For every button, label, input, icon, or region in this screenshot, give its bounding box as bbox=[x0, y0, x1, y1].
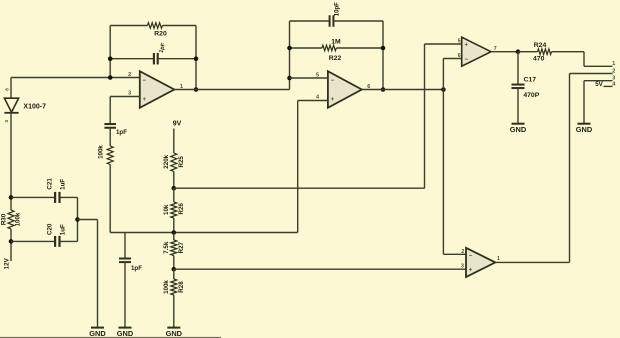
svg-text:R22: R22 bbox=[329, 55, 342, 62]
wire loop2 top with 10pF left bbox=[290, 20, 330, 22]
node C20 tap bbox=[9, 239, 14, 244]
capacitor 1pF lower bbox=[119, 258, 131, 260]
svg-text:+: + bbox=[143, 97, 147, 103]
wire connector pin1 bbox=[584, 65, 613, 67]
svg-text:6: 6 bbox=[458, 53, 461, 59]
wire comparator pin3 bbox=[174, 268, 466, 270]
svg-text:C20: C20 bbox=[46, 223, 53, 235]
node R25 R26 bbox=[172, 186, 177, 191]
resistor R24 bbox=[538, 49, 552, 55]
wire U1 pin3 drop bbox=[109, 97, 111, 124]
svg-text:3: 3 bbox=[128, 91, 131, 97]
ground GND pin3 bbox=[578, 123, 591, 125]
svg-text:R26: R26 bbox=[178, 203, 185, 215]
svg-text:+: + bbox=[469, 268, 473, 274]
node pin5 branch bbox=[287, 76, 292, 81]
resistor R28 100k bbox=[171, 279, 177, 295]
svg-text:2: 2 bbox=[128, 72, 131, 78]
wire U2 pin4 bbox=[298, 100, 328, 102]
photodiode X100-7 bbox=[4, 98, 18, 112]
node C21 tap bbox=[9, 195, 14, 200]
svg-text:220k: 220k bbox=[163, 154, 170, 168]
node 1M left bbox=[287, 46, 292, 51]
wire R26 node to pin4 drop bbox=[174, 232, 298, 234]
node loop2 right at U2 output bbox=[381, 87, 386, 92]
capacitor C21 bbox=[54, 192, 56, 203]
wire R24 right bbox=[552, 51, 585, 53]
svg-text:1M: 1M bbox=[331, 38, 341, 45]
capacitor 10pF bbox=[329, 15, 331, 27]
svg-text:10pF: 10pF bbox=[335, 2, 341, 16]
op-amp U3 bbox=[462, 37, 491, 66]
wire pin3 to gnd bbox=[583, 81, 585, 124]
resistor R24 470 wire left bbox=[518, 51, 538, 53]
node U2 output to comparator bbox=[441, 87, 446, 92]
svg-text:1: 1 bbox=[612, 61, 615, 67]
svg-text:2: 2 bbox=[461, 249, 464, 255]
wire U4 output bbox=[495, 261, 569, 263]
wire connector pin3 bbox=[584, 80, 613, 82]
photodiode top wire / op-amp U1 pin2 net bbox=[11, 77, 140, 79]
svg-text:−: − bbox=[469, 253, 473, 259]
op-amp U4 comparator bbox=[466, 248, 495, 277]
wire 1M left bbox=[290, 47, 323, 49]
svg-text:R20: R20 bbox=[154, 30, 167, 37]
svg-text:−: − bbox=[331, 78, 335, 84]
capacitor C21 wire left bbox=[11, 196, 55, 198]
capacitor C17 wire top bbox=[517, 52, 519, 85]
ground GND left bbox=[91, 327, 104, 329]
wire U3 pin5 bbox=[425, 43, 462, 45]
svg-text:2: 2 bbox=[612, 68, 615, 74]
svg-text:470P: 470P bbox=[523, 92, 539, 99]
feedback left vertical bbox=[109, 26, 111, 78]
wire R26 to node bbox=[173, 218, 175, 233]
resistor R30 bbox=[8, 210, 14, 229]
wire R27 to node bbox=[173, 256, 175, 270]
wire 1M right bbox=[336, 47, 383, 49]
wire U2 out vertical net bbox=[442, 59, 444, 255]
wire U2 output bbox=[362, 89, 444, 91]
photodiode X100-7 lead bbox=[10, 78, 12, 99]
capacitor 1pF feedback wire left bbox=[110, 58, 154, 60]
svg-text:1uF: 1uF bbox=[60, 224, 67, 235]
wire 1pF lower to gnd bbox=[124, 262, 126, 327]
wire U4 output riser to pin2 bbox=[569, 74, 571, 263]
resistor R22 1M bbox=[322, 45, 336, 51]
capacitor C20 wire left bbox=[11, 240, 55, 242]
svg-text:GND: GND bbox=[117, 329, 134, 338]
capacitor 1pF at pin3 bbox=[104, 123, 116, 125]
wire U2 pin4 drop bbox=[297, 101, 299, 233]
resistor R20 bbox=[148, 23, 163, 29]
wire photodiode to R30 node bbox=[10, 113, 12, 210]
wire loop2 left vertical bbox=[289, 21, 291, 90]
wire bottom rail to R26 node bbox=[110, 232, 174, 234]
svg-text:R30: R30 bbox=[1, 213, 8, 225]
svg-text:GND: GND bbox=[89, 329, 106, 338]
svg-text:1pF: 1pF bbox=[131, 265, 142, 272]
wire R28 to gnd bbox=[173, 295, 175, 328]
svg-text:1pF: 1pF bbox=[159, 42, 168, 54]
wire 9V to R25 bbox=[173, 129, 175, 154]
svg-text:10k: 10k bbox=[163, 204, 170, 215]
svg-text:R28: R28 bbox=[178, 281, 185, 293]
resistor R26 10k bbox=[171, 202, 177, 218]
wire U3 pin6 bbox=[443, 58, 461, 60]
op-amp U1 bbox=[140, 71, 175, 108]
svg-text:GND: GND bbox=[576, 125, 593, 134]
node C17 tap bbox=[516, 49, 521, 54]
capacitor 1pF feedback bbox=[153, 53, 155, 64]
wire loop2 top right bbox=[333, 20, 383, 22]
svg-text:1: 1 bbox=[497, 256, 500, 262]
wire U3 output bbox=[491, 51, 518, 53]
svg-text:470: 470 bbox=[533, 55, 545, 62]
feedback right vertical bbox=[195, 26, 197, 90]
node loop1 left on pin2 wire bbox=[108, 75, 113, 80]
op-amp U2 bbox=[328, 71, 362, 108]
wire U1 output to loop2 bbox=[174, 89, 289, 91]
wire connector pin4 bbox=[604, 85, 613, 87]
svg-text:GND: GND bbox=[166, 329, 183, 338]
svg-text:4: 4 bbox=[316, 94, 320, 100]
svg-text:3: 3 bbox=[461, 263, 464, 269]
svg-text:−: − bbox=[143, 78, 147, 84]
capacitor C21 wire right bbox=[60, 196, 78, 198]
wire gnd drop bbox=[97, 220, 99, 328]
resistor R25 220k bbox=[171, 153, 177, 172]
svg-text:12V: 12V bbox=[4, 257, 11, 269]
capacitor C20 wire right bbox=[60, 240, 78, 242]
node 1M right bbox=[381, 46, 386, 51]
svg-text:X100-7: X100-7 bbox=[23, 104, 46, 111]
svg-text:100k: 100k bbox=[97, 145, 104, 159]
wire C17 to gnd bbox=[517, 88, 519, 124]
node R26 R27 bbox=[172, 230, 177, 235]
svg-text:1uF: 1uF bbox=[60, 179, 67, 190]
ground GND mid-left bbox=[119, 327, 132, 329]
ground GND C17 bbox=[512, 123, 525, 125]
capacitor C17 bbox=[512, 84, 525, 86]
wire 1pF lower top bbox=[124, 233, 126, 259]
capacitor 1pF feedback wire right bbox=[158, 58, 196, 60]
node caps mid bbox=[75, 217, 80, 222]
ground GND under R28 bbox=[167, 327, 180, 329]
svg-text:100k: 100k bbox=[163, 280, 170, 294]
wire node to R26 bbox=[173, 188, 175, 202]
svg-text:4: 4 bbox=[612, 81, 615, 87]
node R27 R28 bbox=[172, 267, 177, 272]
bottom page edge artifact bbox=[0, 337, 221, 338]
svg-text:100k: 100k bbox=[15, 212, 22, 226]
wire R20 to right vertical bbox=[162, 25, 196, 27]
wire loop2 right vertical bbox=[382, 21, 384, 90]
svg-text:8: 8 bbox=[5, 88, 10, 91]
svg-text:C21: C21 bbox=[46, 178, 53, 190]
svg-text:3: 3 bbox=[4, 119, 9, 122]
svg-text:R27: R27 bbox=[178, 241, 185, 253]
wire caps mid to gnd drop bbox=[78, 219, 98, 221]
svg-text:5: 5 bbox=[458, 38, 461, 44]
wire U3 pin5 riser bbox=[424, 44, 426, 188]
wire comparator pin2 bbox=[443, 253, 466, 255]
svg-text:5V: 5V bbox=[595, 81, 603, 88]
svg-text:R24: R24 bbox=[534, 42, 547, 49]
wire connector pin2 bbox=[570, 73, 613, 75]
svg-text:C17: C17 bbox=[524, 76, 537, 83]
wire U2 pin5 bbox=[290, 77, 328, 79]
svg-text:9V: 9V bbox=[173, 121, 182, 128]
resistor 100k vertical bbox=[107, 146, 113, 165]
svg-text:1pF: 1pF bbox=[116, 129, 127, 136]
wire R24 elbow down bbox=[583, 52, 585, 67]
wire R25 to node bbox=[173, 172, 175, 189]
wire caps mid vertical bbox=[77, 197, 79, 241]
node op-amp U1 output bbox=[194, 87, 199, 92]
node feedback cap right bbox=[194, 56, 199, 61]
wire node to R28 bbox=[173, 269, 175, 279]
svg-text:+: + bbox=[331, 97, 335, 103]
wire R30 to 12V bbox=[10, 229, 12, 261]
node feedback cap left bbox=[108, 56, 113, 61]
svg-text:+: + bbox=[464, 43, 468, 49]
wire 100k to bottom rail bbox=[109, 165, 111, 233]
wire node to R27 bbox=[173, 233, 175, 241]
svg-text:−: − bbox=[464, 57, 468, 63]
wire R25 node to U3 pin5 run bbox=[174, 187, 425, 189]
wire U1 pin3 bbox=[110, 96, 140, 98]
feedback loop top wire with R20 bbox=[110, 25, 147, 27]
svg-text:GND: GND bbox=[510, 125, 527, 134]
wire cap to 100k bbox=[109, 129, 111, 146]
resistor R27 7.5k bbox=[171, 240, 177, 256]
svg-text:7.5k: 7.5k bbox=[163, 241, 170, 254]
capacitor C20 bbox=[54, 236, 56, 247]
svg-text:R25: R25 bbox=[178, 156, 185, 168]
